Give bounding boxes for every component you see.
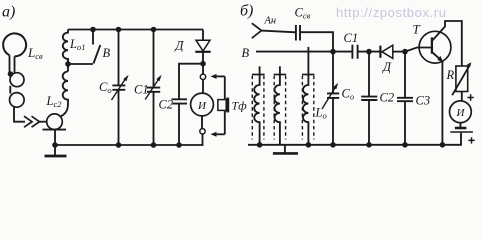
capacitor C3 [397,52,413,145]
svg-text:Со: Со [99,80,112,95]
meter И (circuit a) [191,93,214,116]
wire (bottom rail circuit a) [55,144,204,146]
capacitor C_o (variable) [112,30,129,146]
phones Тф plug arrow top [211,74,225,79]
wire (C_sv to junction) [300,32,333,51]
svg-text:Т: Т [413,22,421,37]
svg-text:В: В [242,46,250,60]
svg-text:Со: Со [342,87,355,102]
coil unit 2 (ferrite winding) [274,66,287,145]
svg-text:Lо: Lо [315,106,327,121]
wire (B line) [256,51,352,53]
capacitor C2 (circuit a) [172,99,188,103]
wire (jack to rail) [202,134,204,145]
wire (top rail down to diode) [202,30,204,40]
svg-text:Тф: Тф [232,99,248,113]
capacitor C_св [296,25,300,41]
svg-text:Д: Д [382,60,392,74]
node (C1 on bottom rail) [151,142,157,148]
node (C2 on bottom rail) [176,142,182,148]
bottom rail circuit б [248,144,462,146]
jack (above meter) [200,74,205,79]
capacitor C_o (variable, circuit б) [322,52,339,145]
node (C1 on top rail) [151,27,157,33]
wire (to transistor base) [405,48,432,52]
wire (coupling circle 2 to plug) [14,107,25,122]
wire (jack to meter) [202,80,204,94]
svg-text:С1: С1 [344,31,359,45]
wire (An to C_sv) [262,31,296,33]
plug arrows (»») [24,116,40,127]
svg-text:Ссв: Ссв [295,6,311,21]
wire (Tf vertical bottom) [224,110,226,134]
capacitor C1 (circuit б) [352,45,357,59]
antenna loop L_св [3,33,26,72]
capacitor C2 (circuit б) [361,52,377,145]
node (junction dot on antenna stem) [8,71,14,77]
coupling circle 1 [10,73,24,87]
node (C_sv joins B line) [330,49,336,55]
antenna plug Ан [252,23,262,38]
svg-text:С2: С2 [380,91,395,105]
node (C2 tap on B line) [366,49,372,55]
svg-text:http://zpostbox.ru: http://zpostbox.ru [336,5,447,20]
svg-text:Lс2: Lс2 [46,94,63,109]
svg-text:И: И [197,100,207,112]
svg-text:Д: Д [175,39,185,53]
node (C2 on rail) [366,142,372,148]
node (C_o on top rail) [116,27,122,33]
node (under diode) [200,61,206,67]
phones Тф body [218,98,228,113]
battery [450,123,473,145]
svg-text:С1: С1 [134,83,149,97]
coupling circle 2 [9,93,24,108]
svg-text:R: R [446,68,455,82]
wire (jack down to rail) [54,130,56,145]
transistor T [419,21,462,145]
node (C3 tap) [402,49,408,55]
wire (plug to jack) [40,121,47,123]
diode Д (circuit a) [195,40,210,64]
node (L_o on rail) [306,142,312,148]
svg-text:И: И [456,107,466,119]
coil L_c2 [60,72,68,117]
meter И (circuit б) [450,101,472,123]
jack (below meter) [200,129,205,134]
node (coil1 on rail) [257,142,263,148]
wire (C2 to rail) [178,104,180,145]
svg-text:С3: С3 [416,94,431,108]
coil unit 3 L_o [302,47,314,145]
jack socket circle [47,114,63,130]
plus sign (top) [467,94,473,100]
svg-text:Ан: Ан [264,16,277,27]
wire (R to meter) [461,92,463,102]
node (switch on top rail) [90,27,96,33]
svg-text:б): б) [240,3,253,20]
wire (diode node down) [202,64,204,74]
coil unit 1 (ferrite winding) [252,66,265,145]
coil L_o1 [63,30,68,65]
resistor R (variable) [452,62,471,95]
wire (Tf vertical top) [224,76,226,99]
diode Д (circuit б) [380,45,405,58]
plus sign (bottom) [468,137,474,143]
wire (meter to jack below) [201,116,203,129]
svg-text:С2: С2 [159,98,174,112]
wire (C1 to diode) [358,51,381,53]
top rail circuit a [68,29,203,31]
svg-text:Lсв: Lсв [27,45,43,61]
wire (between coupling circles) [9,86,11,94]
wire (jack tangent line) [43,129,67,131]
node (C_o on rail) [330,142,336,148]
ground (circuit a) [54,145,56,155]
wire (diode node to C2 branch) [179,64,203,99]
node (between L_o1 and L_c2) [65,61,71,67]
switch В [92,30,94,45]
svg-text:а): а) [2,4,15,21]
wire (L_o1 junction up) [67,58,69,72]
capacitor C1 (variable) [145,30,161,146]
wire (junction to switch) [68,63,93,65]
node (rail left junction) [52,142,58,148]
node (emitter on rail) [440,142,446,148]
ground (circuit б) [284,145,286,153]
svg-text:Lо1: Lо1 [69,37,85,52]
phones Тф plug arrow bottom [211,132,225,137]
svg-text:В: В [103,46,111,60]
node (C_o on bottom rail) [116,142,122,148]
node (C3 on rail) [402,142,408,148]
